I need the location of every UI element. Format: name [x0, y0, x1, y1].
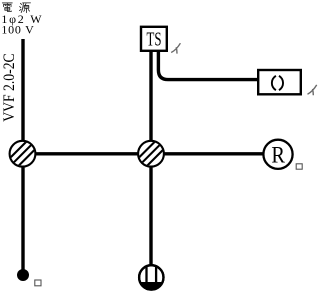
svg-text:TS: TS	[147, 30, 162, 51]
svg-text:100 V: 100 V	[1, 22, 34, 36]
svg-text:R: R	[271, 142, 285, 168]
timer switch TS box	[141, 27, 167, 51]
label: ロ (near R lamp)	[296, 164, 302, 169]
outlet box with ( ) symbol	[258, 70, 301, 94]
wire: TS down through center junction to lamp	[149, 51, 152, 277]
ceiling lamp (circle with bars, filled bottom)	[138, 264, 165, 292]
label: イ (near TS)	[171, 43, 180, 53]
junction box (left, hatched circle)	[6, 137, 39, 170]
svg-text:VVF 2.0-2C: VVF 2.0-2C	[1, 53, 18, 122]
junction box (center, hatched circle)	[135, 137, 168, 170]
wire: power feed vertical (left column)	[21, 39, 24, 275]
wire: TS to outlet box with rounded corner	[158, 51, 258, 80]
switch (filled dot)	[17, 269, 29, 281]
label: 電 源 (power source kanji, drawn)	[2, 3, 30, 13]
label: イ (near outlet box)	[308, 85, 317, 95]
wire: horizontal left junction to R lamp	[23, 152, 264, 155]
label: ロ (near switch)	[35, 280, 41, 286]
lamp R (circle with R)	[263, 140, 292, 169]
